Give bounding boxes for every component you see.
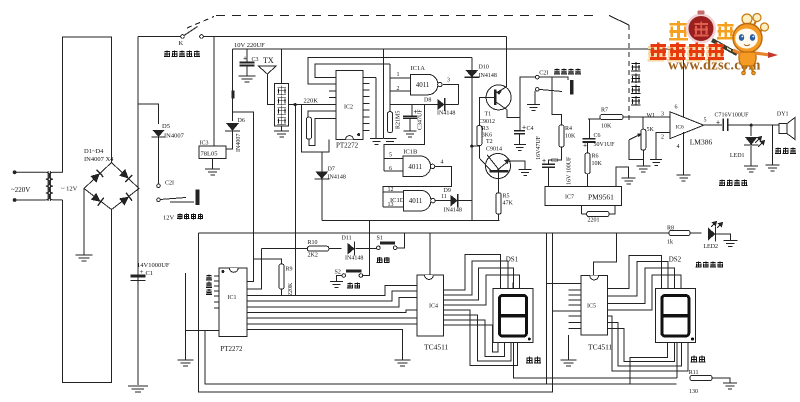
svg-text:5K: 5K <box>647 127 655 133</box>
pin IC2 right long <box>363 76 376 78</box>
jack CZ2 lever <box>160 198 186 200</box>
svg-text:DS2: DS2 <box>669 256 682 264</box>
jack CZ1 bar <box>570 80 574 94</box>
pin DS1 stub <box>512 283 514 289</box>
wire R10 left <box>262 248 308 250</box>
svg-text:R9: R9 <box>286 267 293 273</box>
wire R9 top <box>254 259 282 264</box>
diode D11 <box>348 243 355 255</box>
label baojing zhishi <box>719 180 747 186</box>
svg-text:4011: 4011 <box>416 81 430 89</box>
label yinliang-tiaojie volume <box>631 62 640 105</box>
svg-text:C9014: C9014 <box>486 147 502 153</box>
resistor R11 130 <box>690 376 712 381</box>
wire bridge left to ground <box>83 189 85 256</box>
junction LED1 node <box>750 124 753 127</box>
svg-text:R10: R10 <box>308 240 318 246</box>
svg-text:T2: T2 <box>486 139 493 145</box>
nest5 t3 <box>607 268 674 304</box>
svg-text:R5: R5 <box>503 194 510 200</box>
potentiometer W1 5K <box>641 129 646 150</box>
wire receiver bottom <box>281 126 283 131</box>
wire rail to D6 <box>232 49 234 121</box>
op-amp IC6 LM386 <box>670 112 704 139</box>
diode D4 <box>119 193 132 206</box>
ground LED2 <box>723 240 737 246</box>
wire D5 to jack <box>158 137 160 184</box>
ground CZ1 <box>527 105 540 111</box>
svg-text:D11: D11 <box>342 236 352 242</box>
pins IC5 left stubs <box>547 284 581 329</box>
speaker DY1 <box>779 118 795 140</box>
jack CZ2 contact1 <box>157 184 161 188</box>
bridge rectifier D1-D4 <box>84 163 139 210</box>
svg-text:16V 100UF: 16V 100UF <box>567 156 573 185</box>
wire IC5 vcc <box>594 233 617 276</box>
wire receiver to IC2 <box>288 104 336 106</box>
wire R10 to D11 <box>329 248 342 250</box>
wire IC2 pinB to R1 <box>308 111 336 117</box>
wire R8 to LED2 <box>690 232 702 234</box>
svg-text:IC1: IC1 <box>228 295 237 301</box>
svg-text:LED1: LED1 <box>730 153 745 159</box>
wire C7 to speaker <box>728 124 780 126</box>
svg-text:16V47UF: 16V47UF <box>536 135 542 160</box>
wire R1 bottom U <box>309 119 336 146</box>
diode D6 <box>226 123 239 131</box>
ground IC5 <box>561 360 577 366</box>
ground bridge left <box>76 255 93 261</box>
switch S2 button <box>346 270 362 273</box>
wire R10 drop <box>247 249 262 289</box>
resistor R7 10K <box>600 115 623 120</box>
wire IC1D out <box>435 200 451 202</box>
ground IC2 a <box>370 139 383 145</box>
wire rail drop x383 <box>382 49 384 139</box>
wire C4 lead <box>519 118 521 131</box>
wire lower top rail <box>199 232 700 234</box>
wire IC5 gnd <box>568 335 570 360</box>
bus data2 <box>247 291 417 301</box>
wire W1 bottom to ground <box>642 150 644 166</box>
wire IC2 pin to ground1 <box>375 77 377 138</box>
svg-text:R6: R6 <box>592 154 599 160</box>
svg-text:D8: D8 <box>424 98 431 104</box>
wire fb left2 <box>581 213 586 215</box>
svg-text:TC4511: TC4511 <box>588 343 613 352</box>
wire IC2 bottom pin loop <box>302 105 329 152</box>
svg-text:PT2272: PT2272 <box>220 345 243 353</box>
ground W1 <box>636 166 650 172</box>
wire C6 top <box>588 119 590 139</box>
wire R3 to T2 <box>479 146 490 171</box>
svg-text:K: K <box>179 40 184 47</box>
pin IC1A in2 <box>390 90 411 92</box>
wire T2 base to R5 <box>498 172 500 192</box>
gate IC1A 4011 <box>411 74 438 95</box>
diode D8 <box>438 99 445 110</box>
label dianyuan zhishi <box>696 262 723 268</box>
capacitor C5 47UF <box>403 116 417 118</box>
wire IC1 gnd horizontal <box>186 330 219 332</box>
ground LED1 <box>744 166 758 172</box>
wire C5 to ground <box>409 118 411 131</box>
nest4 t2 <box>444 261 508 295</box>
wire IC1 ground column <box>185 273 187 360</box>
gate IC1D 4011 <box>404 190 431 211</box>
svg-text:LED2: LED2 <box>703 244 718 250</box>
svg-text:6: 6 <box>675 105 678 111</box>
label baojing shuchu <box>554 69 581 75</box>
driver IC5 TC4511 <box>581 276 607 335</box>
svg-text:D5: D5 <box>162 123 170 130</box>
nest4 b2 <box>444 315 511 361</box>
svg-text:5: 5 <box>389 153 392 159</box>
svg-text:220K: 220K <box>288 282 294 296</box>
wire D6 junction blob <box>232 91 235 99</box>
wire receiver top to rail <box>281 49 283 84</box>
wire osc to IC1B <box>384 105 424 172</box>
svg-text:4011: 4011 <box>409 197 423 205</box>
resistor R6 10K <box>585 153 590 174</box>
ground amp pin4 <box>677 175 691 181</box>
pins IC1 left stubs <box>214 276 219 308</box>
wire T1 emitter up <box>506 37 508 87</box>
capacitor C7 <box>723 119 728 131</box>
wire D10 column <box>471 58 473 221</box>
wire top 10V rail <box>233 48 684 50</box>
wire D11 to S1 <box>356 248 377 250</box>
dashed top line <box>216 15 600 17</box>
svg-text:IC7: IC7 <box>565 195 574 201</box>
switch S2 contact R <box>359 274 363 278</box>
ground IC3 <box>205 169 220 175</box>
resistor R1 220K <box>306 117 311 139</box>
wire R5 to reset line <box>498 214 500 220</box>
svg-text:2: 2 <box>397 86 400 92</box>
wire amp pin2 gnd <box>656 133 670 160</box>
transistor T2 C9014 <box>486 154 511 179</box>
bus data1 <box>247 285 417 295</box>
wire jack CZ2 to bar <box>170 201 194 203</box>
svg-text:IN4148: IN4148 <box>328 175 346 181</box>
wire IC1B out to IC1D <box>383 166 452 207</box>
diode D2 <box>119 169 132 182</box>
svg-text:C3: C3 <box>252 57 259 63</box>
LED LED1 <box>745 137 757 145</box>
svg-text:IN4007: IN4007 <box>164 133 185 140</box>
resistor R5 47K <box>496 193 501 214</box>
svg-text:+: + <box>522 125 526 132</box>
diode D10 <box>465 70 478 78</box>
svg-text:3: 3 <box>661 112 664 118</box>
dashed corner diagonal <box>609 16 629 26</box>
svg-text:C3: C3 <box>551 158 558 164</box>
diode D5 <box>153 130 165 137</box>
svg-text:S2: S2 <box>335 270 341 276</box>
LED LED2 <box>708 228 716 241</box>
label receiver glyphs <box>277 86 286 125</box>
resistor RF 2201 <box>587 212 609 217</box>
svg-text:1k: 1k <box>667 240 673 246</box>
wire W1 top <box>642 117 644 129</box>
svg-text:4: 4 <box>677 144 680 150</box>
diode D9 <box>451 195 458 207</box>
gate IC1B 4011 <box>403 156 430 177</box>
svg-text:LM386: LM386 <box>690 137 713 146</box>
svg-text:4: 4 <box>441 160 444 166</box>
svg-text:+: + <box>243 56 247 63</box>
wire amp pin4 down <box>683 132 685 175</box>
svg-text:50V1UF: 50V1UF <box>594 142 616 148</box>
pin IC1B in5 <box>384 157 403 159</box>
svg-text:13: 13 <box>388 202 394 208</box>
wire jack CZ1 top to bar <box>539 77 568 80</box>
resistor R9 220K <box>279 264 284 289</box>
wire amp power column <box>683 49 685 117</box>
wire R11 to ground <box>712 378 730 383</box>
regulator IC3 78L05 <box>199 146 226 159</box>
svg-text:6: 6 <box>389 166 392 172</box>
svg-text:D1~D4: D1~D4 <box>84 148 104 155</box>
wire C3b to PM9561 <box>548 167 550 187</box>
watermark weiku yixia <box>648 43 725 62</box>
svg-text:TC4511: TC4511 <box>424 343 449 352</box>
ground speaker <box>766 165 780 171</box>
switch K contact left <box>181 35 185 39</box>
switch S1 button <box>380 242 395 245</box>
display DS1 <box>493 289 533 343</box>
bus gnd7 <box>247 330 402 361</box>
wire C4 ground lead <box>518 134 520 145</box>
svg-text:IN4148: IN4148 <box>345 256 363 262</box>
jack CZ1 contact2 <box>536 88 540 92</box>
driver IC4 TC4511 <box>417 275 444 336</box>
wire D9 to vertical <box>458 200 471 202</box>
wire collector node up <box>520 77 536 117</box>
nest4 b3 <box>444 320 505 357</box>
svg-text:C2I: C2I <box>165 181 174 187</box>
nest5 b2 <box>607 322 681 366</box>
svg-text:D9: D9 <box>444 188 451 194</box>
wire jack to R4 <box>552 77 561 125</box>
pin IC1B in6 <box>384 170 403 172</box>
wire S2 left to ground <box>336 276 342 282</box>
svg-text:IN4007 X4: IN4007 X4 <box>84 156 114 163</box>
svg-text:TX: TX <box>263 56 274 65</box>
pin IC2 L stub1 <box>329 90 336 92</box>
nest5 b3 <box>607 329 674 362</box>
label bianmaxian <box>206 275 212 296</box>
ground C5 <box>404 131 417 137</box>
svg-text:R7: R7 <box>601 108 608 114</box>
wire C3 to ground <box>246 66 248 77</box>
svg-text:DS1: DS1 <box>506 256 519 264</box>
label 12V DC input glyphs <box>177 214 203 220</box>
svg-text:~220V: ~220V <box>11 186 30 194</box>
svg-text:D10: D10 <box>479 65 489 71</box>
nest5 t1 <box>607 256 661 289</box>
capacitor C3b 16V100UF <box>542 164 555 167</box>
wire T1 base <box>479 98 495 126</box>
svg-text:+: + <box>716 120 720 127</box>
svg-text:C1: C1 <box>146 270 154 277</box>
bus data3 <box>247 297 417 307</box>
svg-text:IN4148: IN4148 <box>437 111 455 117</box>
wire amp out <box>704 124 722 126</box>
wire node down to lower bus <box>295 105 297 296</box>
jack CZ1 contact1 <box>536 75 540 79</box>
svg-text:2201: 2201 <box>588 218 600 224</box>
svg-text:10K: 10K <box>565 134 576 140</box>
ground IC1 <box>178 360 194 366</box>
ground PM9561 <box>622 178 636 184</box>
switch S2 contact L <box>342 274 346 278</box>
svg-text:R8: R8 <box>667 226 674 232</box>
pin IC1D in13 <box>383 206 404 208</box>
svg-text:IC1A: IC1A <box>411 65 426 72</box>
wire S2 right up <box>363 221 370 276</box>
svg-text:5: 5 <box>704 118 707 124</box>
wire antenna to receiver <box>267 74 274 105</box>
svg-text:PM9561: PM9561 <box>588 193 614 202</box>
svg-text:2K2: 2K2 <box>308 253 318 259</box>
resistor R4 10K <box>559 125 564 147</box>
label shiwei <box>691 356 706 363</box>
bus common y378 <box>514 342 678 378</box>
svg-text:R4: R4 <box>565 126 572 132</box>
nest4 t3 <box>444 268 514 300</box>
wire C5 lead <box>411 105 413 117</box>
diode D1 <box>90 170 103 183</box>
wire secondary bottom loop <box>63 200 112 383</box>
wire IC3 to ground <box>212 159 214 169</box>
dashed link at K <box>187 17 214 29</box>
wire to IC1A inputs <box>389 64 391 112</box>
pin IC1A in1 <box>390 77 411 79</box>
svg-text:IN4148: IN4148 <box>444 208 462 214</box>
wire LED2 to ground <box>716 234 731 240</box>
svg-text:12V: 12V <box>163 214 175 221</box>
wire lower left outer <box>199 233 553 392</box>
svg-text:C6: C6 <box>594 133 601 139</box>
diode D7 <box>315 172 328 180</box>
svg-text:IN4007: IN4007 <box>236 134 242 152</box>
wire K to IC3 <box>213 37 215 146</box>
LED LED1 arrows <box>755 137 765 148</box>
wire fb left <box>580 206 582 214</box>
nest5 t2 <box>607 262 668 297</box>
decoder IC1 PT2272 <box>219 268 247 337</box>
ground C3 <box>239 76 256 82</box>
svg-text:IC2: IC2 <box>344 105 353 111</box>
switch S1 contact L <box>377 246 381 250</box>
wire R4 to C3b <box>549 147 562 164</box>
svg-text:+: + <box>542 158 546 165</box>
wire T1 collector down <box>507 110 520 118</box>
potentiometer W1 wiper <box>629 134 642 140</box>
junction node 220K <box>294 103 297 106</box>
dashed volume line vertical <box>628 25 630 122</box>
svg-text:IC4: IC4 <box>429 304 438 310</box>
svg-text:W1: W1 <box>647 113 656 119</box>
wire IC2 loop B <box>315 64 390 78</box>
wire D10 to base node <box>472 145 480 147</box>
wire fb right <box>609 206 615 214</box>
svg-text:130: 130 <box>689 389 698 395</box>
wire T2 collector to ground <box>509 161 526 169</box>
wire jack CZ1 to ground <box>534 91 536 105</box>
wire R7 to amp <box>623 116 670 118</box>
svg-text:T1: T1 <box>485 112 492 118</box>
wire W1 wiper to bottom <box>629 140 643 160</box>
svg-text:C4: C4 <box>527 126 534 132</box>
wire reset line y220 <box>322 220 500 222</box>
wire S1 to column <box>397 233 405 248</box>
wire to K left contact <box>138 36 181 38</box>
capacitor C6 <box>583 139 596 142</box>
wire lower left inner <box>205 331 677 384</box>
nest4 t1 <box>444 255 501 290</box>
svg-text:IC3: IC3 <box>200 141 209 147</box>
label baojing S1 <box>377 257 390 263</box>
ground S2 <box>330 281 343 287</box>
svg-text:C716V100UF: C716V100UF <box>715 113 750 119</box>
svg-text:C9012: C9012 <box>479 119 495 125</box>
wire R7 left <box>588 118 600 120</box>
wire K switched line <box>203 36 506 38</box>
nest5 b4 <box>630 342 668 384</box>
svg-text:R21M5: R21M5 <box>396 111 402 129</box>
svg-text:IC5: IC5 <box>587 304 596 310</box>
svg-text:12: 12 <box>388 187 394 193</box>
svg-text:IN4148: IN4148 <box>479 73 497 79</box>
wire R9 bottom <box>281 289 283 296</box>
resistor R2 1M5 <box>388 112 393 133</box>
chip IC7 PM9561 <box>545 187 622 206</box>
transistor T1 C9012 <box>486 85 511 110</box>
svg-text:DY1: DY1 <box>777 112 789 118</box>
decoder IC2 PT2272 <box>336 71 363 140</box>
switch K contact right <box>200 35 204 39</box>
svg-text:3: 3 <box>447 78 450 84</box>
bus data6 <box>247 323 417 325</box>
nest4 b4 <box>444 325 498 352</box>
wire vcc drop to IC1 <box>233 112 254 281</box>
wire D6 to IC3 out <box>226 131 233 149</box>
svg-text:D7: D7 <box>328 167 335 173</box>
bus data5 <box>247 317 417 319</box>
svg-text:C347UF: C347UF <box>418 109 424 130</box>
LED LED2 arrows <box>711 222 723 229</box>
nest5 t4 <box>607 275 681 310</box>
svg-text:78L05: 78L05 <box>201 151 218 158</box>
display DS2 <box>655 289 695 343</box>
wire secondary top loop <box>63 37 112 172</box>
ground receiver <box>274 131 289 137</box>
wire mid vertical x546 <box>546 233 548 384</box>
svg-text:11: 11 <box>441 194 447 200</box>
capacitor C1 <box>131 276 146 281</box>
svg-text:C2I: C2I <box>539 71 548 77</box>
watermark zhao xin pian <box>669 11 737 55</box>
ground R11 <box>723 383 737 389</box>
wire IC4 vcc <box>429 233 431 275</box>
wire LED1 lead <box>750 125 752 136</box>
svg-text:3K6: 3K6 <box>482 133 492 139</box>
wire main 12V rail vertical <box>137 37 139 386</box>
switch S1 contact R <box>393 246 397 250</box>
